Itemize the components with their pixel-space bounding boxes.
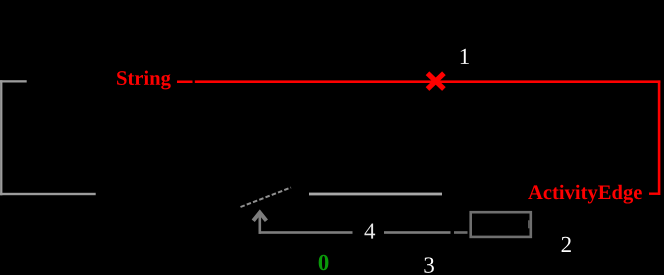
box node bbox=[471, 212, 531, 237]
wire red dash before ActivityEdge bbox=[649, 193, 660, 195]
horizontal wire mid bbox=[309, 193, 442, 196]
wire from arrow to label 4 bbox=[259, 231, 353, 234]
arrow shaft bbox=[259, 214, 262, 234]
node ActivityEdge bbox=[528, 185, 642, 204]
arrow head bbox=[253, 213, 266, 221]
diagonal dashed wire bbox=[241, 188, 292, 208]
label 3 bbox=[424, 257, 434, 272]
node String bbox=[117, 71, 171, 90]
label 4 bbox=[364, 223, 375, 238]
edge String to ActivityEdge horizontal wire bbox=[195, 80, 661, 83]
label 2 bbox=[562, 237, 571, 252]
bracket top horizontal wire bbox=[0, 80, 27, 82]
error marker X on edge bbox=[428, 73, 444, 89]
wire dash before box bbox=[454, 231, 468, 234]
edge String to ActivityEdge vertical wire bbox=[658, 80, 661, 195]
label 1 bbox=[461, 49, 469, 64]
wire red dash after String bbox=[177, 81, 193, 84]
label 0 bbox=[319, 255, 329, 271]
bracket vertical wire bbox=[0, 80, 2, 195]
tick inside box right edge bbox=[528, 220, 530, 228]
wire from label 4 to box bbox=[384, 231, 451, 234]
bracket bottom horizontal wire bbox=[0, 193, 96, 195]
